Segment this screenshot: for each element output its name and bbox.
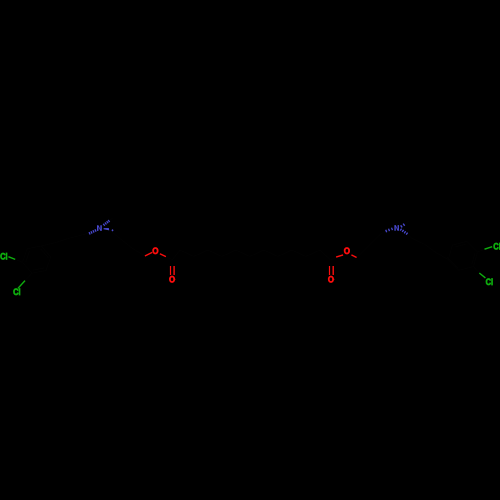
C=O double bond right ester xyxy=(329,266,331,275)
N1 chain to ester: wedge continuation then down to O1 xyxy=(109,230,145,256)
svg-text:Cl: Cl xyxy=(486,277,494,288)
N2 chain down-right to right ring xyxy=(407,234,448,260)
svg-text:Cl: Cl xyxy=(13,287,21,298)
left ring inner double bonds xyxy=(26,249,48,270)
long aliphatic chain between carbonyls xyxy=(172,250,330,260)
svg-text:Cl: Cl xyxy=(493,241,500,252)
left benzene ring xyxy=(23,246,51,273)
N1 hashed bond down-left (to chain) xyxy=(89,229,96,234)
O2 right tick xyxy=(174,278,175,280)
chain C to carbonyl C1 xyxy=(166,257,173,260)
N1 charge plus xyxy=(112,229,114,231)
svg-text:Cl: Cl xyxy=(0,251,8,262)
bond stub Cl2-ring xyxy=(18,281,25,289)
N1 hashed bond up-right (to methyl) xyxy=(103,220,109,226)
carbonyl C2' to O3 black half xyxy=(330,257,336,260)
bond stub O3 down-right xyxy=(351,255,356,258)
bond stub Cl4-ring xyxy=(479,273,485,278)
N2 hashed bond down-right (to chain) xyxy=(400,229,407,235)
N1 solid wedge right (to methyl) xyxy=(104,228,110,230)
bond stub Cl3-ring xyxy=(485,247,493,250)
Cl bond black halves xyxy=(15,249,484,280)
svg-text:O: O xyxy=(152,246,158,256)
nitrogen N2 label (right) xyxy=(394,225,399,231)
svg-text:O: O xyxy=(344,246,350,256)
left phenylpropyl chain to N1 xyxy=(41,230,96,246)
right ring inner double bonds xyxy=(447,244,475,268)
nitrogen N1 label xyxy=(97,225,102,231)
carbon skeleton (very dark gray, near-invisible) xyxy=(15,218,484,281)
C=O double bond left ester xyxy=(170,266,172,275)
right chain O3 to N2 xyxy=(357,230,390,258)
bond stub Cl1-ring xyxy=(8,257,15,260)
N2 hashed bond up-right (to methyl) xyxy=(401,224,405,228)
bond stub O3 down-left xyxy=(336,255,343,257)
bond stub O1 down-right xyxy=(160,254,166,257)
right benzene ring xyxy=(448,241,477,270)
bond stub O1 down-left xyxy=(145,252,152,256)
N2 hashed bond left (to chain) xyxy=(386,228,393,233)
N1 methyl up-right black half xyxy=(110,218,113,220)
O4 right tick xyxy=(333,278,334,280)
N2 methyl up-right black half xyxy=(405,222,409,224)
